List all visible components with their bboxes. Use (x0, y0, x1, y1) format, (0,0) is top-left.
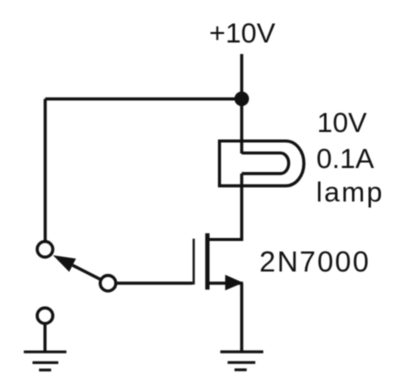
transistor Q1 source arrow (225, 275, 243, 291)
wire left rail down to switch (44, 99, 47, 241)
switch S1 bottom terminal (100, 275, 116, 291)
svg-text:lamp: lamp (316, 177, 384, 208)
wire node to lamp filament (240, 99, 243, 154)
ground right (220, 352, 263, 370)
svg-text:2N7000: 2N7000 (259, 247, 370, 279)
switch S1 open terminal (37, 308, 53, 324)
ground left (24, 352, 67, 370)
transistor Q1 channel (205, 233, 209, 289)
transistor Q1 drain lead (207, 238, 243, 241)
wire supply to node (240, 54, 243, 99)
wire source to ground (240, 283, 243, 351)
svg-text:10V: 10V (317, 107, 367, 138)
wire open terminal to ground (43, 325, 46, 352)
transistor Q1 gate plate (193, 239, 195, 285)
svg-text:0.1A: 0.1A (316, 143, 374, 174)
switch S1 top terminal (37, 242, 53, 258)
wire lamp to drain (240, 174, 243, 241)
node junction dot (234, 92, 249, 107)
lamp DS1 filament (242, 153, 289, 174)
wire switch to gate (117, 282, 193, 285)
lamp DS1 envelope (220, 141, 304, 186)
svg-text:+10V: +10V (209, 17, 275, 48)
transistor Q1 source lead (207, 282, 243, 285)
wire node to left rail (45, 97, 242, 100)
switch S1 lever arrow (53, 255, 100, 279)
